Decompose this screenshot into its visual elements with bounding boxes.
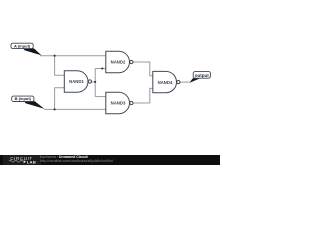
watermark bar (0, 155, 220, 165)
circuitlab logo badge (3, 155, 41, 165)
svg-text:NAND4: NAND4 (158, 80, 173, 85)
svg-text:http://circuitlab.com/cmc6wauu: http://circuitlab.com/cmc6wauura6ly4k8e4… (40, 159, 113, 163)
wire branch A down to NAND1 upper input (55, 56, 65, 75)
svg-text:NAND3: NAND3 (111, 101, 126, 106)
label A (input) (11, 43, 33, 48)
wire NAND2 output to NAND4 upper input (133, 62, 153, 76)
nand gate U4 NAND4 (153, 71, 180, 92)
wire fork to NAND3 upper input (95, 96, 106, 98)
credit text line 1 (40, 155, 88, 159)
nand gate U1 NAND1 (64, 71, 91, 92)
flag of label B (24, 101, 44, 109)
wire NAND1 output to fork (92, 81, 96, 83)
svg-text:output: output (195, 73, 209, 78)
svg-text:B (input): B (input) (15, 96, 32, 101)
junction dot on B net (54, 108, 56, 110)
junction dot near NAND2 lower input (101, 67, 103, 69)
svg-text:A (input): A (input) (14, 43, 31, 48)
junction dot on A net (54, 55, 56, 57)
credit text line 2 (40, 159, 113, 163)
nand gate U2 NAND2 (106, 51, 133, 72)
wire fork to NAND2 lower input (95, 68, 106, 70)
junction dot at NAND1 output tee (94, 81, 96, 83)
svg-text:LAB: LAB (27, 159, 36, 164)
wire fork vertical (94, 69, 96, 97)
flag of label output (189, 78, 200, 83)
flag of label A (23, 48, 41, 55)
wire NAND4 output to output label (180, 81, 190, 83)
label output (193, 72, 210, 79)
node B : input wire from B label to NAND3 lower input (44, 108, 106, 110)
svg-text:NAND2: NAND2 (111, 60, 126, 65)
wire NAND3 output to NAND4 lower input (133, 88, 153, 103)
node A : input wire from A label to NAND2 upper input (40, 55, 106, 57)
wire branch B up to NAND1 lower input (55, 88, 65, 110)
nand gate U3 NAND3 (106, 92, 133, 113)
svg-text:NAND1: NAND1 (69, 79, 84, 84)
label B (input) (12, 96, 34, 101)
